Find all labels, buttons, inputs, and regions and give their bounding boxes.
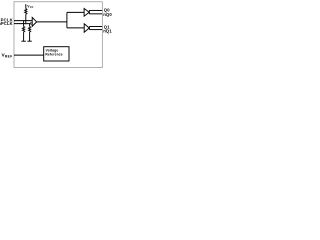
- svg-text:nPCLK: nPCLK: [0, 21, 13, 26]
- svg-text:VCC: VCC: [27, 4, 33, 8]
- svg-text:nQ1: nQ1: [103, 28, 112, 33]
- svg-text:nQ0: nQ0: [103, 12, 112, 17]
- svg-text:Reference: Reference: [45, 52, 62, 56]
